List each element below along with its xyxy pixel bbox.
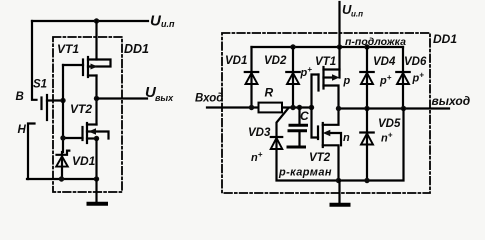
node VT drains <box>336 106 341 111</box>
wire VT1 source to rail <box>338 47 340 70</box>
node bottom rail right <box>94 176 99 181</box>
svg-text:Н: Н <box>18 124 27 136</box>
diode VD6 <box>396 47 427 109</box>
wire to VT1 gate <box>63 64 83 66</box>
wire supply lead <box>338 2 340 47</box>
svg-text:VT2: VT2 <box>70 102 92 116</box>
transistor VT2 <box>70 102 109 143</box>
node VD4 top <box>364 44 369 49</box>
node VT2 source on well <box>336 178 341 183</box>
wire to VT2 gate <box>63 137 83 139</box>
svg-text:Вход: Вход <box>195 93 223 105</box>
wire left branch to switch B contact <box>32 21 37 100</box>
transistor VT1 <box>57 42 111 77</box>
svg-text:и.п: и.п <box>351 10 363 19</box>
label U supply (right) <box>342 2 363 19</box>
node supply to rail <box>337 44 342 49</box>
svg-text:n+: n+ <box>251 150 263 164</box>
svg-text:p: p <box>343 75 351 87</box>
svg-text:VD3: VD3 <box>248 127 271 139</box>
node VD1 bottom <box>59 176 64 181</box>
wire VT2 source to bottom rail <box>95 139 97 180</box>
node VD1 bottom <box>249 105 254 110</box>
svg-text:В: В <box>16 91 24 103</box>
node VD4/VD5 <box>364 106 369 111</box>
diode VD4 <box>360 47 396 109</box>
svg-text:и.п: и.п <box>161 19 175 29</box>
node VD2 top <box>290 44 295 49</box>
wire output <box>339 107 450 109</box>
node input junction <box>60 98 65 103</box>
svg-text:р-карман: р-карман <box>278 167 332 179</box>
svg-text:C: C <box>300 109 309 123</box>
diode VD1 (right) <box>225 47 258 108</box>
diode VD2 <box>264 47 312 108</box>
svg-text:VD5: VD5 <box>378 118 401 130</box>
svg-text:VT1: VT1 <box>57 42 79 56</box>
transistor VT1 (right) <box>312 56 351 109</box>
svg-text:p+: p+ <box>412 71 425 85</box>
svg-text:DD1: DD1 <box>433 32 457 46</box>
svg-text:вых: вых <box>155 93 174 103</box>
node capacitor top <box>297 105 302 110</box>
wire VT1 source to output node <box>95 76 97 125</box>
label U output <box>145 84 174 103</box>
ground (left) <box>89 179 107 204</box>
node VD2 bottom <box>290 105 295 110</box>
svg-text:n+: n+ <box>381 131 393 145</box>
node supply junction <box>94 18 99 23</box>
ground (right) <box>332 181 349 205</box>
svg-text:VD1: VD1 <box>72 154 96 168</box>
node VT2 source <box>94 136 99 141</box>
IC boundary DD1 (right) <box>222 33 430 193</box>
diode VD5 <box>360 109 401 181</box>
switch S1 <box>33 79 47 121</box>
svg-text:n: n <box>343 132 350 144</box>
wire switch common to input node <box>47 99 63 101</box>
svg-text:p+: p+ <box>379 73 392 87</box>
wire input vertical <box>62 65 64 152</box>
svg-text:VT1: VT1 <box>315 56 336 68</box>
svg-text:VD4: VD4 <box>373 56 396 68</box>
diode VD3 <box>248 109 288 165</box>
label U supply <box>150 13 175 30</box>
transistor VT2 (right) <box>309 108 350 181</box>
svg-text:VD1: VD1 <box>225 55 247 67</box>
svg-text:VD6: VD6 <box>404 56 427 68</box>
svg-text:выход: выход <box>432 94 471 108</box>
node VD6 bottom <box>401 106 406 111</box>
svg-text:VD2: VD2 <box>264 55 287 67</box>
wire top supply rail <box>32 20 148 22</box>
diode VD1 (left) <box>56 151 95 179</box>
svg-text:p+: p+ <box>300 65 313 79</box>
wire output <box>97 97 148 99</box>
IC boundary DD1 <box>53 37 122 192</box>
resistor R <box>259 86 283 113</box>
node gate branch <box>309 105 314 110</box>
p-well boundary <box>277 109 404 181</box>
wire H contact down <box>28 124 35 180</box>
svg-text:S1: S1 <box>33 79 47 91</box>
svg-text:VT2: VT2 <box>309 152 331 164</box>
node VD5 bottom <box>364 178 369 183</box>
svg-text:R: R <box>265 86 274 100</box>
node VT2 gate branch <box>60 135 65 140</box>
capacitor C <box>288 108 309 148</box>
wire bottom rail <box>27 178 97 180</box>
wire VT1 drain to rail <box>95 21 97 60</box>
wire substrate top rail <box>252 46 404 48</box>
wire input <box>207 106 312 108</box>
svg-text:DD1: DD1 <box>124 42 149 56</box>
node output junction <box>94 96 99 101</box>
